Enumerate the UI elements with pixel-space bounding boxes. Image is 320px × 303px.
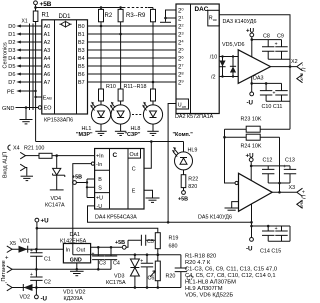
wire +U rail <box>37 228 158 233</box>
wire -rail <box>96 287 181 289</box>
wire inv input <box>225 129 236 183</box>
svg-text:R1-R18 820: R1-R18 820 <box>185 254 216 260</box>
svg-text:Uоп: Uоп <box>178 103 186 109</box>
svg-text:R20: R20 <box>166 274 176 280</box>
capacitor C7 <box>180 255 182 288</box>
svg-text:+U: +U <box>96 196 103 202</box>
svg-text:C10 C11: C10 C11 <box>262 104 283 110</box>
wire D1 <box>21 33 42 35</box>
diode VD2 <box>12 287 96 289</box>
svg-text:D1: D1 <box>8 32 15 38</box>
-In inversion circle <box>91 162 94 165</box>
svg-text:+: + <box>273 91 276 97</box>
shield to ground <box>25 168 27 176</box>
svg-text:D3: D3 <box>8 48 15 54</box>
svg-text:E: E <box>132 188 136 194</box>
pin Out <box>128 149 141 159</box>
wire B5 <box>88 65 177 67</box>
-U terminal <box>35 288 37 296</box>
svg-text:DA4 КР554СА3А: DA4 КР554СА3А <box>95 214 137 220</box>
svg-text:DA3: DA3 <box>253 76 264 82</box>
wire D4 <box>21 57 42 59</box>
wire D2 <box>21 41 42 43</box>
svg-text:-U: -U <box>41 296 48 303</box>
svg-text:X2: X2 <box>291 59 298 65</box>
svg-text:HL1-HL8 АЛ307БМ: HL1-HL8 АЛ307БМ <box>185 280 236 286</box>
svg-text:X4: X4 <box>13 146 20 152</box>
wire B0 <box>88 25 177 27</box>
buffer symbol <box>59 21 71 27</box>
comparator DA4 КР554СА3А <box>95 149 144 210</box>
svg-text:X1: X1 <box>22 19 28 25</box>
resistor R1 <box>33 11 38 22</box>
svg-text:+In: +In <box>96 154 104 160</box>
wire PE <box>21 90 36 92</box>
svg-text:Out: Out <box>130 152 139 158</box>
node C pin <box>150 140 153 143</box>
svg-text:HL9: HL9 <box>188 148 198 154</box>
connector X4 <box>8 145 11 150</box>
resistor R9 <box>151 9 156 21</box>
svg-text:C13: C13 <box>285 158 295 164</box>
svg-text:-In: -In <box>96 162 102 168</box>
capacitor C14 <box>267 226 269 241</box>
node EAB <box>34 96 36 98</box>
svg-text:A2: A2 <box>44 40 51 46</box>
wire output X3 <box>272 191 296 193</box>
svg-text:"Комп.": "Комп." <box>173 132 194 138</box>
svg-text:VD3: VD3 <box>114 274 125 280</box>
svg-text:КР1533АП6: КР1533АП6 <box>44 117 73 123</box>
GND pin ground <box>76 263 78 269</box>
wire /10 to opamp <box>219 56 238 58</box>
+5B terminal <box>122 245 126 249</box>
wire Комп <box>36 141 184 143</box>
ground <box>160 21 171 23</box>
svg-text:C3: C3 <box>99 260 106 266</box>
svg-text:680: 680 <box>169 244 178 250</box>
svg-text:+5B: +5B <box>178 196 188 202</box>
svg-text:A1: A1 <box>44 32 51 38</box>
wire ref line <box>73 254 181 256</box>
+5V terminal <box>34 1 38 5</box>
resistor R11 (R11--R18) <box>118 89 123 101</box>
svg-text:КС175А: КС175А <box>106 280 126 286</box>
svg-text:R23 10K: R23 10K <box>241 117 262 123</box>
svg-text:- U вых: - U вых <box>300 64 306 82</box>
op-amp DA3 <box>238 50 270 84</box>
node <box>34 6 37 9</box>
svg-text:/2: /2 <box>211 75 216 81</box>
svg-text:C2: C2 <box>44 279 51 285</box>
svg-text:B6: B6 <box>78 72 85 78</box>
-U terminal <box>251 226 253 238</box>
node GND <box>25 106 28 109</box>
wire Rос feedback <box>219 15 290 130</box>
svg-text:C4, C5, C7, C8, C10, C12, C14: C4, C5, C7, C8, C10, C12, C14 0,1 <box>185 273 276 279</box>
svg-text:B5: B5 <box>78 64 85 70</box>
wire Uоп to Комп line <box>168 104 176 223</box>
svg-text:VD4: VD4 <box>51 196 62 202</box>
wire D3 <box>21 49 42 51</box>
resistor R24 <box>246 134 260 140</box>
capacitor C10 <box>265 83 267 101</box>
svg-text:VD5,VD6: VD5,VD6 <box>222 42 244 48</box>
svg-text:R21 100: R21 100 <box>24 146 44 152</box>
wire X4 to R21 <box>25 155 39 157</box>
wire EAB <box>36 96 42 98</box>
svg-text:-U: -U <box>246 246 253 253</box>
LED HL8 <box>152 101 154 105</box>
svg-text:D5: D5 <box>8 64 15 70</box>
wire /2 to opamp <box>219 76 238 78</box>
+U terminal <box>36 228 38 249</box>
wire common <box>12 268 111 270</box>
svg-text:+: + <box>5 256 9 262</box>
svg-text:КС147А: КС147А <box>45 202 65 208</box>
svg-text:B1: B1 <box>78 32 85 38</box>
resistor R2 <box>99 9 104 21</box>
svg-text:DA2 К572ПА1А: DA2 К572ПА1А <box>175 114 214 120</box>
wire GND <box>16 107 39 109</box>
svg-text:DA5 К140УД6: DA5 К140УД6 <box>198 215 232 221</box>
LED HL1 <box>100 101 102 105</box>
wire B1 <box>88 33 177 35</box>
svg-text:A7: A7 <box>44 80 51 86</box>
svg-text:R24 10K: R24 10K <box>241 144 262 150</box>
wire C pin up to Комп <box>144 142 151 169</box>
svg-text:X3: X3 <box>289 185 296 191</box>
svg-text:A6: A6 <box>44 72 51 78</box>
arrows D0-D7,PE <box>16 25 21 93</box>
svg-text:VD2: VD2 <box>20 295 31 301</box>
svg-text:X5: X5 <box>10 241 17 247</box>
svg-text:VD1 VD2: VD1 VD2 <box>63 290 85 296</box>
wire B4 <box>88 57 177 59</box>
zener VD3 КС175А <box>134 255 136 259</box>
svg-text:+U: +U <box>246 28 255 35</box>
+U terminal <box>250 33 254 37</box>
wire D6 <box>21 73 42 75</box>
svg-text:C4: C4 <box>113 260 120 266</box>
svg-text:-: - <box>5 281 7 287</box>
dashed link <box>132 114 142 116</box>
svg-text:B7: B7 <box>78 80 85 86</box>
svg-text:-U: -U <box>97 204 103 210</box>
svg-text:R20 4.7 К: R20 4.7 К <box>185 260 211 266</box>
-U wire bottom <box>252 76 282 83</box>
wire C12 C13 top <box>251 165 290 167</box>
node PE <box>34 90 36 92</box>
svg-text:GND: GND <box>70 257 82 263</box>
wire B7 <box>88 81 177 83</box>
svg-text:DAC: DAC <box>195 6 209 13</box>
wire C10C11 common <box>266 100 290 102</box>
svg-text:D7: D7 <box>8 80 15 86</box>
svg-text:КД209А: КД209А <box>64 296 84 302</box>
svg-text:DA3 К140УД6: DA3 К140УД6 <box>223 19 257 25</box>
svg-text:A0: A0 <box>44 24 51 30</box>
op-amp DA5 <box>239 173 273 211</box>
+U terminal <box>249 158 253 162</box>
wire R1 to PE net <box>35 22 37 142</box>
svg-text:D2: D2 <box>8 40 15 46</box>
svg-text:C5: C5 <box>147 239 154 245</box>
capacitor C11 <box>281 83 283 101</box>
svg-text:R3--R9: R3--R9 <box>126 13 146 19</box>
svg-text:"МЗР": "МЗР" <box>76 132 93 138</box>
resistor R10 <box>99 89 104 101</box>
svg-text:In: In <box>66 247 71 253</box>
svg-text:Rос: Rос <box>209 16 217 22</box>
svg-text:R1: R1 <box>42 13 50 19</box>
svg-text:Питание: Питание <box>1 260 7 281</box>
wire C8 C9 top <box>252 39 282 41</box>
resistor R18 <box>151 89 156 101</box>
svg-text:DA1: DA1 <box>70 232 81 238</box>
svg-text:+5B: +5B <box>72 175 82 181</box>
ground <box>25 108 27 120</box>
svg-text:B0: B0 <box>78 24 85 30</box>
svg-text:"СЗР": "СЗР" <box>125 132 141 138</box>
svg-text:+ U вых: + U вых <box>300 190 306 209</box>
capacitor C15 <box>281 226 283 241</box>
resistor R19 <box>155 233 160 249</box>
svg-text:GND: GND <box>2 106 14 112</box>
wire +5 rail <box>36 7 124 9</box>
svg-text:S: S <box>98 185 102 191</box>
wire E pin to ground <box>144 190 153 197</box>
wire C12C13 common <box>268 182 290 184</box>
svg-text:R10: R10 <box>106 84 116 90</box>
wire <box>35 5 37 11</box>
svg-text:+5B: +5B <box>40 1 52 8</box>
svg-text:R2: R2 <box>105 13 113 19</box>
resistor R22 <box>181 175 186 188</box>
svg-text:A3: A3 <box>44 48 51 54</box>
svg-text:C1-C3, C6, C9, C11, C13, C15: C1-C3, C6, C9, C11, C13, C15 47,0 <box>185 267 277 273</box>
wire + input common <box>232 202 239 208</box>
svg-text:VD5, VD6 КД522Б: VD5, VD6 КД522Б <box>185 293 233 299</box>
wire B6 <box>88 73 177 75</box>
wire R2 to B0 and LED column <box>100 8 102 90</box>
wire output to X2 <box>271 66 297 68</box>
wire D0 <box>21 25 42 27</box>
wire B3 <box>88 49 177 51</box>
svg-text:-U: -U <box>247 100 254 107</box>
wire DA4 -U to DA5 area <box>88 206 252 222</box>
DAC DA2 К572ПА1А <box>176 4 219 114</box>
svg-text:C: C <box>132 166 136 172</box>
wire -In reference <box>73 164 92 255</box>
svg-text:+U: +U <box>41 218 50 225</box>
svg-text:HL9 АЛ307ГМ: HL9 АЛ307ГМ <box>185 286 223 292</box>
pin Uоп <box>176 99 189 109</box>
wire +5 rail dashed R3..R9 <box>123 7 151 9</box>
wire C8C9 common <box>268 58 290 60</box>
resistor R3 (R3--R9) <box>118 9 123 21</box>
svg-text:PE: PE <box>7 89 15 95</box>
wire C14C15 common <box>268 240 290 242</box>
wire R24 to DA5 output <box>279 137 281 192</box>
capacitor C4 <box>110 247 112 269</box>
svg-text:R19: R19 <box>169 236 179 242</box>
svg-text:/10: /10 <box>210 55 218 61</box>
trimmer R20 <box>155 261 160 281</box>
svg-text:EO: EO <box>44 106 52 112</box>
svg-text:+U: +U <box>246 152 255 159</box>
svg-text:C14 C15: C14 C15 <box>260 249 281 255</box>
wire 2^1 to gnd <box>166 17 177 19</box>
svg-text:A5: A5 <box>44 64 51 70</box>
wire 2^0 to gnd <box>166 10 177 22</box>
svg-text:D6: D6 <box>8 72 15 78</box>
wire B2 <box>88 41 177 43</box>
svg-text:B2: B2 <box>78 40 85 46</box>
wire -U bottom <box>252 204 291 226</box>
svg-text:820: 820 <box>188 184 197 190</box>
svg-text:+: + <box>283 164 286 170</box>
wire D7 <box>21 81 42 83</box>
svg-text:C1: C1 <box>44 257 51 263</box>
svg-text:C9: C9 <box>277 34 284 40</box>
LED HL2 <box>120 101 122 105</box>
svg-text:D4: D4 <box>8 56 15 62</box>
svg-text:DD1: DD1 <box>59 14 72 20</box>
svg-text:D0: D0 <box>8 24 15 30</box>
svg-text:C8: C8 <box>263 34 270 40</box>
svg-text:B3: B3 <box>78 48 85 54</box>
svg-text:Вход АЦП: Вход АЦП <box>3 152 9 178</box>
svg-text:A4: A4 <box>44 56 51 62</box>
-U terminal <box>251 83 253 92</box>
svg-text:C12: C12 <box>263 158 273 164</box>
wire +5 output <box>91 246 123 248</box>
svg-text:VD1: VD1 <box>20 239 31 245</box>
resistor R21 <box>39 153 52 158</box>
svg-text:B: B <box>98 177 102 183</box>
svg-text:+5B: +5B <box>115 240 125 246</box>
svg-text:R11--R18: R11--R18 <box>124 84 147 90</box>
svg-text:+: + <box>275 42 278 48</box>
wire D5 <box>21 65 42 67</box>
svg-text:R22: R22 <box>188 176 198 182</box>
pin Rос <box>208 10 219 26</box>
diode VD4 КС147А <box>56 156 58 169</box>
svg-text:B4: B4 <box>78 56 85 62</box>
svg-text:Out: Out <box>76 247 85 253</box>
svg-text:+: + <box>275 226 278 232</box>
svg-text:C: C <box>113 152 118 159</box>
